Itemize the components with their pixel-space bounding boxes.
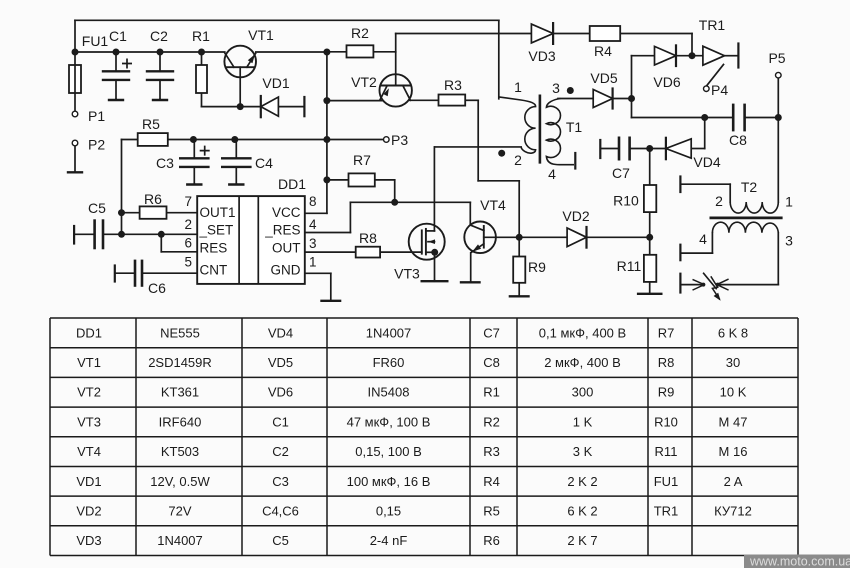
svg-text:6 K 8: 6 K 8	[718, 325, 748, 340]
svg-text:VT2: VT2	[77, 385, 101, 400]
svg-text:2: 2	[184, 217, 192, 232]
svg-text:1: 1	[785, 194, 793, 210]
svg-text:C7: C7	[483, 325, 500, 340]
svg-text:VD2: VD2	[76, 504, 101, 519]
svg-text:IRF640: IRF640	[159, 414, 202, 429]
svg-text:VT4: VT4	[77, 444, 101, 459]
svg-text:8: 8	[309, 194, 317, 209]
svg-text:VD6: VD6	[268, 385, 293, 400]
svg-text:VD3: VD3	[76, 533, 101, 548]
svg-text:2 K 2: 2 K 2	[567, 474, 597, 489]
svg-text:T2: T2	[741, 179, 758, 195]
svg-text:VT4: VT4	[480, 197, 506, 213]
svg-text:30: 30	[726, 355, 740, 370]
svg-text:C1: C1	[272, 414, 289, 429]
svg-text:47 мкФ, 100 В: 47 мкФ, 100 В	[347, 414, 431, 429]
svg-text:6 K 2: 6 K 2	[567, 504, 597, 519]
svg-text:VT2: VT2	[351, 74, 377, 90]
svg-text:100 мкФ, 16 В: 100 мкФ, 16 В	[347, 474, 431, 489]
svg-text:300: 300	[572, 385, 594, 400]
svg-text:C2: C2	[272, 444, 289, 459]
svg-text:P1: P1	[88, 108, 105, 124]
svg-text:2 мкФ, 400 В: 2 мкФ, 400 В	[544, 355, 621, 370]
svg-text:4: 4	[548, 166, 556, 182]
svg-text:C3: C3	[156, 155, 174, 171]
svg-text:2 A: 2 A	[724, 474, 743, 489]
svg-text:VT3: VT3	[77, 414, 101, 429]
svg-text:R9: R9	[658, 385, 675, 400]
svg-text:1 K: 1 K	[573, 414, 593, 429]
svg-text:2-4 nF: 2-4 nF	[370, 533, 408, 548]
svg-text:C8: C8	[483, 355, 500, 370]
svg-text:1N4007: 1N4007	[157, 533, 203, 548]
svg-text:2SD1459R: 2SD1459R	[148, 355, 212, 370]
svg-text:P4: P4	[711, 82, 728, 98]
svg-text:M 47: M 47	[719, 414, 748, 429]
svg-text:0,15, 100 В: 0,15, 100 В	[355, 444, 422, 459]
svg-text:1N4007: 1N4007	[366, 325, 412, 340]
svg-text:FU1: FU1	[654, 474, 679, 489]
svg-text:C1: C1	[109, 28, 127, 44]
svg-text:FU1: FU1	[82, 33, 109, 49]
svg-text:3 K: 3 K	[573, 444, 593, 459]
svg-text:VD2: VD2	[562, 208, 589, 224]
svg-text:2: 2	[514, 152, 522, 168]
svg-text:КУ712: КУ712	[714, 504, 752, 519]
svg-text:4: 4	[699, 231, 707, 247]
svg-text:1: 1	[309, 255, 317, 270]
svg-text:_SET: _SET	[199, 223, 234, 238]
svg-text:R4: R4	[594, 43, 612, 59]
svg-text:4: 4	[309, 217, 317, 232]
svg-text:TR1: TR1	[699, 17, 726, 33]
svg-text:C6: C6	[148, 280, 166, 296]
svg-text:R2: R2	[351, 25, 369, 41]
svg-text:FR60: FR60	[373, 355, 405, 370]
svg-text:R4: R4	[483, 474, 500, 489]
svg-text:C3: C3	[272, 474, 289, 489]
svg-text:5: 5	[184, 255, 192, 270]
svg-text:DD1: DD1	[278, 176, 306, 192]
svg-text:R3: R3	[483, 444, 500, 459]
svg-text:R5: R5	[483, 504, 500, 519]
svg-text:R7: R7	[353, 152, 371, 168]
svg-text:C4,C6: C4,C6	[262, 504, 299, 519]
svg-text:GND: GND	[271, 263, 301, 278]
svg-text:VD5: VD5	[268, 355, 293, 370]
svg-text:2: 2	[715, 193, 723, 209]
svg-text:1: 1	[514, 79, 522, 95]
svg-text:CNT: CNT	[200, 263, 228, 278]
svg-text:R11: R11	[655, 444, 678, 459]
svg-text:VCC: VCC	[272, 205, 301, 220]
svg-text:IN5408: IN5408	[368, 385, 410, 400]
svg-text:P2: P2	[88, 136, 105, 152]
svg-text:NE555: NE555	[160, 325, 200, 340]
svg-text:VD4: VD4	[693, 154, 720, 170]
svg-text:R11: R11	[617, 258, 642, 274]
svg-text:R9: R9	[528, 259, 546, 275]
svg-text:R8: R8	[359, 230, 377, 246]
svg-text:0,1 мкФ, 400 В: 0,1 мкФ, 400 В	[539, 325, 626, 340]
svg-text:7: 7	[184, 194, 192, 209]
svg-text:P3: P3	[391, 132, 408, 148]
svg-text:R10: R10	[654, 414, 678, 429]
svg-text:VD5: VD5	[590, 70, 617, 86]
svg-text:VT3: VT3	[394, 266, 420, 282]
svg-text:R8: R8	[658, 355, 675, 370]
svg-text:2 K 7: 2 K 7	[567, 533, 597, 548]
svg-text:3: 3	[552, 80, 560, 96]
svg-text:OUT1: OUT1	[200, 205, 236, 220]
svg-text:3: 3	[309, 236, 317, 251]
svg-text:R1: R1	[192, 28, 210, 44]
svg-text:C5: C5	[272, 533, 289, 548]
svg-text:_RES: _RES	[264, 223, 300, 238]
svg-text:VT1: VT1	[77, 355, 101, 370]
svg-text:M 16: M 16	[719, 444, 748, 459]
svg-text:6: 6	[184, 236, 192, 251]
svg-text:DD1: DD1	[76, 325, 102, 340]
svg-text:0,15: 0,15	[376, 504, 401, 519]
svg-text:R2: R2	[483, 414, 500, 429]
svg-text:R3: R3	[444, 77, 462, 93]
svg-text:10 K: 10 K	[720, 385, 747, 400]
svg-text:C8: C8	[729, 132, 747, 148]
svg-text:VD1: VD1	[262, 75, 289, 91]
svg-text:RES: RES	[200, 241, 228, 256]
svg-text:12V, 0.5W: 12V, 0.5W	[150, 474, 210, 489]
svg-text:TR1: TR1	[654, 504, 679, 519]
svg-text:C2: C2	[150, 28, 168, 44]
svg-text:R1: R1	[483, 385, 500, 400]
svg-text:P5: P5	[768, 50, 785, 66]
svg-text:R10: R10	[613, 193, 639, 209]
svg-text:KT503: KT503	[161, 444, 199, 459]
svg-text:C4: C4	[255, 155, 273, 171]
svg-text:R6: R6	[483, 533, 500, 548]
svg-text:T1: T1	[566, 119, 583, 135]
svg-text:VD4: VD4	[268, 325, 293, 340]
svg-text:C5: C5	[88, 200, 106, 216]
svg-text:VD6: VD6	[653, 74, 680, 90]
svg-text:VT1: VT1	[248, 27, 274, 43]
svg-text:KT361: KT361	[161, 385, 199, 400]
svg-text:VD3: VD3	[528, 48, 555, 64]
svg-text:72V: 72V	[168, 504, 191, 519]
svg-text:R6: R6	[144, 191, 162, 207]
svg-text:www.moto.com.ua: www.moto.com.ua	[749, 554, 850, 568]
svg-text:R5: R5	[142, 116, 160, 132]
svg-text:C7: C7	[612, 165, 630, 181]
svg-text:R7: R7	[658, 325, 675, 340]
svg-text:3: 3	[785, 233, 793, 249]
svg-text:OUT: OUT	[272, 241, 301, 256]
svg-text:VD1: VD1	[76, 474, 101, 489]
